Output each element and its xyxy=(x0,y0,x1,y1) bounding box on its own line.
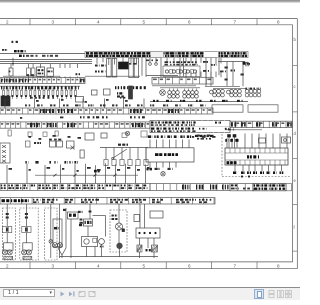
junction box X5 xyxy=(248,105,278,112)
dashed enclosure A3 xyxy=(222,134,290,178)
contact S2a xyxy=(26,141,42,147)
wire number labels xyxy=(1,86,146,89)
labels above X6 xyxy=(25,104,206,106)
PLC input label block xyxy=(150,120,230,132)
wire drops from X1 xyxy=(97,58,243,87)
terminal strip X2 xyxy=(0,78,85,84)
relay pair K16 xyxy=(49,139,63,147)
svg-text:8: 8 xyxy=(277,20,280,25)
indicator H16 xyxy=(125,131,129,135)
wire joins band2 xyxy=(5,99,144,109)
coil symbols K8 row xyxy=(205,86,261,97)
terminal block X9 xyxy=(0,143,10,163)
wire Y3 xyxy=(49,204,53,258)
circuit breaker F1 xyxy=(9,68,14,76)
svg-text:8: 8 xyxy=(277,263,280,268)
motor starter group M2 xyxy=(80,204,106,257)
terminal strip X6 xyxy=(0,108,213,114)
svg-text:2: 2 xyxy=(6,20,9,25)
legend box xyxy=(150,211,163,218)
pilot lamp H14 xyxy=(161,172,165,176)
terminal strip X10 right part xyxy=(150,184,230,191)
heater block E1 xyxy=(136,204,160,258)
contact S5 xyxy=(104,89,111,95)
svg-text:6: 6 xyxy=(188,263,191,268)
A3 input pin labels xyxy=(225,138,238,148)
wire Y1 xyxy=(7,204,26,243)
next view button (disabled) xyxy=(88,290,96,298)
solenoid valve Y1 xyxy=(2,243,13,260)
wire L1 supply bus xyxy=(0,49,85,57)
inline device B8 xyxy=(259,138,266,143)
wire drops to X10 xyxy=(7,163,146,183)
connector cluster dark xyxy=(117,86,133,99)
signal bus with taps xyxy=(150,100,248,102)
valve lamp Y0 xyxy=(160,90,166,96)
svg-text:4: 4 xyxy=(97,263,100,268)
previous view button (disabled) xyxy=(78,290,86,298)
switch S1 contacts xyxy=(146,60,158,66)
breaker Q2 xyxy=(47,68,54,77)
title block xyxy=(253,184,292,191)
svg-text:5: 5 xyxy=(143,20,146,25)
wire number specks xyxy=(7,99,216,172)
solenoid valve Y2 xyxy=(22,243,33,260)
terminal strip X7 left xyxy=(0,122,150,128)
next page button xyxy=(59,290,67,298)
PLC A3 module xyxy=(225,148,288,165)
sheet border bottom ruler xyxy=(0,262,297,269)
small parts below X7 xyxy=(8,130,147,140)
connector cluster X8 xyxy=(195,135,214,140)
sheet border right column xyxy=(293,19,298,269)
sensor pins B7 group xyxy=(227,134,236,148)
A3 output wires xyxy=(233,165,283,174)
control unit A2 xyxy=(1,96,10,106)
facing pages button xyxy=(277,290,284,298)
coil symbols K7 row xyxy=(152,86,200,98)
A1 output pins xyxy=(147,162,177,170)
spare cells xyxy=(230,184,253,191)
continuous layout button xyxy=(268,290,275,298)
contact bank bus xyxy=(0,85,80,87)
pump motor M1 xyxy=(112,204,125,257)
contact box E1a xyxy=(134,215,140,222)
solenoid enclosure dashed Y0 xyxy=(3,208,16,260)
terminal strip X7 right xyxy=(225,121,292,130)
wires to controller xyxy=(245,134,287,149)
phase labels L1 L2 L3 xyxy=(12,41,18,43)
wire feet marks xyxy=(25,161,77,164)
component drops to X2 xyxy=(11,64,78,78)
terminal strip X10 xyxy=(0,184,150,191)
contact S4 xyxy=(92,90,98,95)
power supply G1 xyxy=(119,62,129,69)
terminal strip X1 label band xyxy=(85,51,248,57)
three-phase bus L1 L2 L3 xyxy=(0,58,92,66)
sheet border top ruler xyxy=(0,19,297,25)
pressure switch S3 group xyxy=(52,204,84,258)
terminal pin labels xyxy=(203,61,250,72)
svg-text:7: 7 xyxy=(234,20,237,25)
relay module cluster xyxy=(163,61,200,76)
junction box X4 xyxy=(212,105,243,112)
contact bank X2 pins xyxy=(3,88,77,100)
contact K17 xyxy=(67,141,75,150)
feeder line right xyxy=(218,62,248,81)
motor breaker Q1 xyxy=(37,67,45,77)
limit switch S6 xyxy=(112,149,127,159)
page number box 1/1 xyxy=(3,289,55,297)
svg-text:7: 7 xyxy=(234,263,237,268)
svg-text:3: 3 xyxy=(52,263,55,268)
aux contact marks xyxy=(246,63,249,66)
svg-text:5: 5 xyxy=(143,263,146,268)
solenoid enclosure dashed Y1 xyxy=(20,208,38,260)
fuse F2 tall pair xyxy=(129,58,139,78)
single page layout button (active) xyxy=(254,289,264,299)
viewer top window edge xyxy=(0,0,300,3)
facing continuous button xyxy=(285,290,292,298)
labels above X7 xyxy=(80,116,145,118)
control wire NH1 xyxy=(100,144,148,166)
section header band xyxy=(0,198,215,204)
svg-text:3: 3 xyxy=(52,20,55,25)
wire links band1 xyxy=(3,75,178,78)
inline device B10 xyxy=(80,150,84,158)
contactor K1 contacts xyxy=(27,68,36,76)
svg-text:2: 2 xyxy=(6,263,9,268)
valve group Y1 contacts xyxy=(3,213,31,233)
svg-text:6: 6 xyxy=(188,20,191,25)
svg-text:4: 4 xyxy=(97,20,100,25)
pin marks group xyxy=(76,65,106,76)
svg-text:c: c xyxy=(294,84,296,89)
controller module A1 xyxy=(146,135,194,162)
bottom collector bus xyxy=(60,256,159,258)
pump enclosure dashed M1 xyxy=(110,210,127,252)
solenoid enclosure dashed Y2 xyxy=(45,208,58,260)
last page button xyxy=(68,290,76,298)
relay marks row xyxy=(30,97,125,103)
viewer bottom toolbar xyxy=(0,287,300,300)
terminal block X3 xyxy=(152,77,213,84)
transformer T1 xyxy=(107,59,117,78)
inline device B9 xyxy=(282,137,291,143)
